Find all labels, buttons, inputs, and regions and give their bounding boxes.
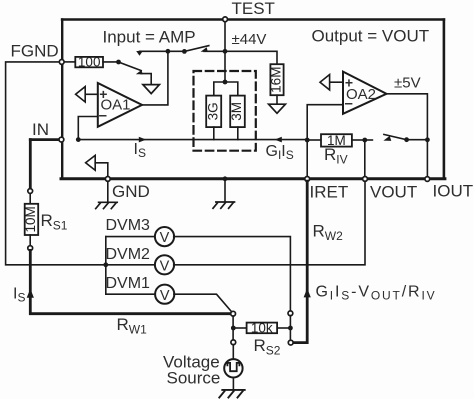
wire GND to earth: [107, 181, 109, 202]
wire IRET drop: [306, 140, 308, 177]
svg-text:3G: 3G: [205, 102, 220, 120]
wire OA1 plus stub: [85, 93, 98, 95]
resistor RS1 body 10M: [25, 204, 39, 235]
dashed guard box: [194, 71, 256, 151]
wire DVM2 right from VOUT: [174, 181, 365, 265]
terminal VS top: [231, 340, 236, 345]
node guard split: [223, 80, 228, 85]
svg-text:16M: 16M: [269, 67, 284, 93]
svg-text:Output = VOUT: Output = VOUT: [312, 27, 430, 46]
terminal VOUT: [363, 177, 368, 182]
node FGND DVM junction: [103, 262, 108, 267]
wire RW2 thick drop: [293, 181, 307, 342]
arrow IS up: [27, 289, 34, 298]
switch S1 lever: [119, 62, 142, 71]
switch S1 arrowhead: [136, 70, 143, 74]
analog ground triangle at S1: [143, 85, 160, 94]
resistor RS1 lead bottom: [29, 235, 31, 246]
svg-text:10M: 10M: [23, 206, 38, 232]
wire 3M bottom stub: [237, 127, 239, 140]
outer box top edge: [62, 18, 444, 20]
outer box right edge: [443, 20, 446, 179]
svg-text:OA1: OA1: [101, 97, 131, 114]
resistor 16M lead bottom: [276, 95, 278, 104]
wire OA2 plus stub: [330, 81, 343, 83]
wire VOUT drop: [364, 140, 366, 177]
node TEST junction: [223, 49, 228, 54]
wire S3 to IOUT line: [407, 139, 428, 141]
terminal DVM3 drop: [288, 311, 293, 316]
meter DVM3: [155, 227, 174, 246]
switch S1 pivot node: [116, 60, 121, 65]
node 10k right junction: [288, 326, 293, 331]
resistor RS2 body 10k: [247, 323, 278, 334]
outer box left edge: [61, 20, 63, 179]
svg-text:V: V: [160, 258, 170, 274]
resistor R 100 lead right: [103, 61, 119, 63]
wire left drop to RS1: [29, 140, 32, 189]
meter DVM2: [155, 255, 174, 274]
switch S1 contact wire: [141, 74, 151, 85]
node earth tap on GND bus: [223, 176, 228, 181]
node RS2 left junction: [231, 326, 236, 331]
svg-text:3M: 3M: [229, 102, 244, 121]
terminal TEST: [223, 17, 228, 22]
resistor R 100 lead left: [64, 61, 76, 63]
wire DVM3 left: [106, 236, 156, 238]
meter DVM1: [155, 285, 174, 304]
svg-text:100: 100: [78, 55, 101, 70]
wire DVM1 left: [106, 293, 156, 295]
terminal IN: [59, 137, 64, 142]
earth ground at VS: [219, 390, 244, 398]
switch S3 contact stub: [365, 139, 373, 141]
earth ground middle: [213, 202, 235, 208]
resistor R 100 body: [75, 57, 103, 67]
svg-text:IN: IN: [32, 120, 49, 139]
node OA1 output junction: [166, 49, 171, 54]
resistor RS2 lead left: [233, 327, 246, 329]
wire IS drop to RW1: [30, 250, 230, 313]
wire guard arrow to GND: [95, 163, 108, 177]
svg-text:V: V: [160, 230, 170, 246]
wire to 16M: [225, 51, 277, 64]
terminal RW1 right: [231, 311, 236, 316]
terminal IOUT: [425, 177, 430, 182]
terminal RS1 top: [28, 189, 33, 194]
wire DVM1 right diagonal: [174, 294, 232, 312]
wire DVM2 left: [106, 264, 156, 266]
resistor RS2 lead right: [277, 327, 290, 329]
resistor 3G body: [206, 96, 221, 128]
node OA1 inverting junction: [76, 137, 81, 142]
analog ground triangle at 16M: [269, 104, 286, 113]
wire DVM left bus: [105, 237, 107, 295]
wire bus to middle earth: [224, 180, 226, 202]
resistor 1M lead left: [307, 139, 321, 141]
switch S3 arrowhead: [383, 136, 391, 141]
wire OA1 output riser: [142, 51, 168, 105]
guard arrow at OA2: [320, 75, 330, 90]
guard arrow at GND: [86, 155, 96, 170]
svg-text:OA2: OA2: [346, 86, 376, 103]
switch S3 lever: [384, 134, 407, 139]
wire guard line to TEST: [140, 50, 226, 52]
wire 3G bottom stub: [213, 127, 215, 140]
outer box bottom edge: [61, 177, 445, 180]
terminal IRET: [305, 177, 310, 182]
wire VS top lead: [232, 345, 234, 360]
svg-text:±5V: ±5V: [394, 75, 421, 92]
voltage source VS: [224, 359, 242, 377]
wire RW1 terminal to VS: [232, 316, 234, 340]
svg-text:FGND: FGND: [11, 42, 59, 61]
node VOUT junction: [362, 138, 367, 143]
wire FGND left run: [6, 62, 106, 265]
voltage source waveform glyph: [227, 363, 239, 371]
resistor 1M body: [321, 134, 352, 146]
op-amp OA2: [343, 72, 387, 114]
wire IN to left: [30, 138, 61, 141]
svg-text:10k: 10k: [251, 320, 273, 335]
wire OA2 output: [387, 94, 428, 177]
wire IS / GI IS horizontal line: [78, 139, 307, 141]
svg-text:DVM2: DVM2: [106, 246, 151, 263]
svg-text:IOUT: IOUT: [433, 182, 474, 201]
switch S2 pivot node: [182, 49, 187, 54]
svg-text:Input = AMP: Input = AMP: [103, 28, 196, 47]
node IOUT line junction: [425, 137, 430, 142]
switch S2 arrowhead: [201, 47, 208, 52]
arrow GIIS up: [304, 288, 311, 297]
earth ground at GND: [96, 202, 118, 208]
wire DVM3 drop lower: [289, 316, 291, 341]
resistor RS1 lead top: [29, 193, 31, 204]
arrow IS right: [139, 137, 146, 143]
arrow GI IS left: [275, 137, 282, 143]
op-amp OA1: [98, 83, 142, 127]
terminal GND: [105, 177, 110, 182]
wire guard split to 3G 3M: [214, 82, 238, 96]
svg-text:TEST: TEST: [232, 0, 275, 18]
guard arrow at OA1: [76, 87, 86, 102]
svg-text:Source: Source: [167, 369, 221, 388]
wire OA2 minus input: [307, 105, 343, 140]
switch S3 pivot node: [404, 137, 409, 142]
svg-text:DVM3: DVM3: [106, 217, 151, 234]
svg-text:±44V: ±44V: [232, 31, 267, 48]
switch S2 lever: [184, 46, 208, 52]
wire DVM3 right to drop: [174, 237, 291, 311]
wire VS bottom lead: [232, 378, 234, 390]
svg-text:V: V: [160, 288, 170, 304]
resistor 3M body: [230, 96, 245, 128]
svg-text:GND: GND: [112, 182, 150, 201]
svg-text:IRET: IRET: [310, 183, 349, 202]
node RIV left junction: [305, 138, 310, 143]
terminal RW2 end: [288, 340, 293, 345]
resistor 1M lead right: [352, 139, 365, 141]
wire OA1 minus input: [78, 117, 98, 140]
wire TEST vertical: [224, 20, 226, 83]
terminal RS1 bottom: [28, 246, 33, 251]
svg-text:DVM1: DVM1: [106, 275, 151, 292]
arrow down at guard wire end: [136, 51, 143, 56]
resistor 16M body: [270, 64, 283, 95]
terminal FGND: [59, 60, 64, 65]
svg-text:VOUT: VOUT: [370, 183, 417, 202]
